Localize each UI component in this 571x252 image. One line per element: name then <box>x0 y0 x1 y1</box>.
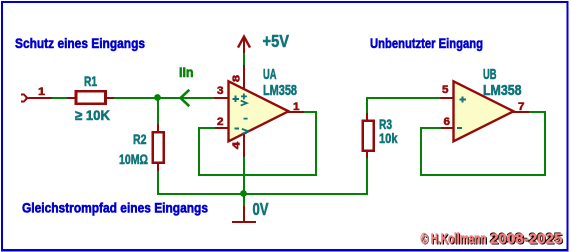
wire +5V to pin 8 <box>243 53 245 65</box>
text: Unbenutzter Eingang <box>370 36 483 51</box>
connector pin 1 lead <box>27 97 53 99</box>
op-amp UA pin 1 stub <box>288 111 304 113</box>
svg-text:Schutz eines Eingangs: Schutz eines Eingangs <box>15 36 145 51</box>
label UA <box>263 67 277 83</box>
svg-text:Unbenutzter Eingang: Unbenutzter Eingang <box>370 36 483 51</box>
svg-text:R1: R1 <box>84 73 97 89</box>
current arrow IIn <box>181 90 190 106</box>
wire connector to R1 <box>52 97 68 99</box>
svg-text:4: 4 <box>232 141 243 149</box>
op-amp UA pin 4 stub <box>243 134 245 158</box>
svg-text:0V: 0V <box>253 199 269 219</box>
op-amp UB pin 7 stub <box>513 111 529 113</box>
pin 8 label (rotated) <box>232 74 243 82</box>
label UB <box>483 67 497 83</box>
resistor R2 <box>153 124 164 172</box>
text: Gleichstrompfad eines Eingangs <box>22 200 208 215</box>
feedback wire UA output to pin 2 <box>199 112 316 175</box>
label +5V <box>263 31 290 51</box>
svg-text:7: 7 <box>518 101 525 113</box>
svg-text:10k: 10k <box>379 130 398 146</box>
op-amp UA <box>229 81 289 141</box>
connector pin head <box>21 95 27 102</box>
0V rail wire <box>157 193 368 195</box>
op-amp UB <box>454 81 514 141</box>
text: copyright H.Kollmann 2008-2025 <box>421 231 564 249</box>
label IIn <box>179 65 194 80</box>
value LM358 (UA) <box>263 83 297 99</box>
svg-text:© H.Kollmann: © H.Kollmann <box>421 231 487 247</box>
UA minus input marker <box>234 127 238 129</box>
pin 1 label (output) <box>293 101 300 113</box>
wire R3 top to UB pin 5 <box>367 98 441 114</box>
value LM358 (UB) <box>483 83 522 99</box>
op-amp UA pin 8 stub <box>243 64 245 90</box>
op-amp UA pin 2 stub <box>214 127 229 129</box>
svg-text:1: 1 <box>38 86 45 98</box>
+5V supply symbol <box>238 37 250 54</box>
pin 5 label <box>442 84 449 96</box>
UA V- power marker <box>242 119 248 134</box>
label R1 <box>84 73 97 89</box>
svg-text:5: 5 <box>442 84 449 96</box>
wire junction down to R2 <box>157 97 159 125</box>
op-amp UB pin 5 stub <box>440 97 454 99</box>
junction 0V node <box>240 190 247 197</box>
value 10MΩ <box>119 151 148 167</box>
pin 6 label <box>444 116 451 128</box>
UA V+ power marker <box>241 94 247 106</box>
label 0V <box>253 199 269 219</box>
wire UA pin 4 to 0V rail <box>243 157 245 195</box>
svg-text:+5V: +5V <box>263 31 290 51</box>
pin 7 label <box>518 101 525 113</box>
pin 2 label <box>217 116 224 128</box>
svg-text:≥ 10K: ≥ 10K <box>75 107 110 123</box>
junction input node <box>154 94 161 101</box>
wire R2 to 0V rail <box>157 171 159 195</box>
svg-text:8: 8 <box>232 74 243 82</box>
resistor R3 <box>363 113 374 159</box>
value ≥ 10K <box>75 107 110 123</box>
svg-text:6: 6 <box>444 116 451 128</box>
svg-text:R2: R2 <box>133 131 147 147</box>
resistor R1 <box>67 91 115 104</box>
pin 1 label <box>38 86 45 98</box>
svg-text:LM358: LM358 <box>483 83 522 99</box>
svg-text:2008-2025: 2008-2025 <box>490 231 563 247</box>
svg-text:LM358: LM358 <box>263 83 297 99</box>
svg-text:10MΩ: 10MΩ <box>119 151 148 167</box>
label R3 <box>379 116 392 132</box>
svg-text:IIn: IIn <box>179 65 194 80</box>
UB minus input marker <box>457 127 462 129</box>
UA plus input marker <box>233 96 239 102</box>
feedback wire UB output to pin 6 <box>421 112 545 175</box>
wire R3 bottom to 0V rail <box>366 158 368 195</box>
label R2 <box>133 131 147 147</box>
wire R1 to op-amp UA pin 3 <box>114 97 214 99</box>
value 10k <box>379 130 398 146</box>
pin 4 label (rotated) <box>232 141 243 149</box>
svg-text:Gleichstrompfad eines Eingangs: Gleichstrompfad eines Eingangs <box>22 200 208 215</box>
UB plus input marker <box>460 96 466 102</box>
svg-text:3: 3 <box>217 85 224 97</box>
svg-text:UB: UB <box>483 67 497 83</box>
pin 3 label <box>217 85 224 97</box>
op-amp UA pin 3 stub <box>214 97 229 99</box>
svg-text:1: 1 <box>293 101 300 113</box>
op-amp UB pin 6 stub <box>440 127 454 129</box>
ground 0V symbol <box>232 194 256 222</box>
svg-text:UA: UA <box>263 67 277 83</box>
text: Schutz eines Eingangs <box>15 36 145 51</box>
svg-text:2: 2 <box>217 116 224 128</box>
